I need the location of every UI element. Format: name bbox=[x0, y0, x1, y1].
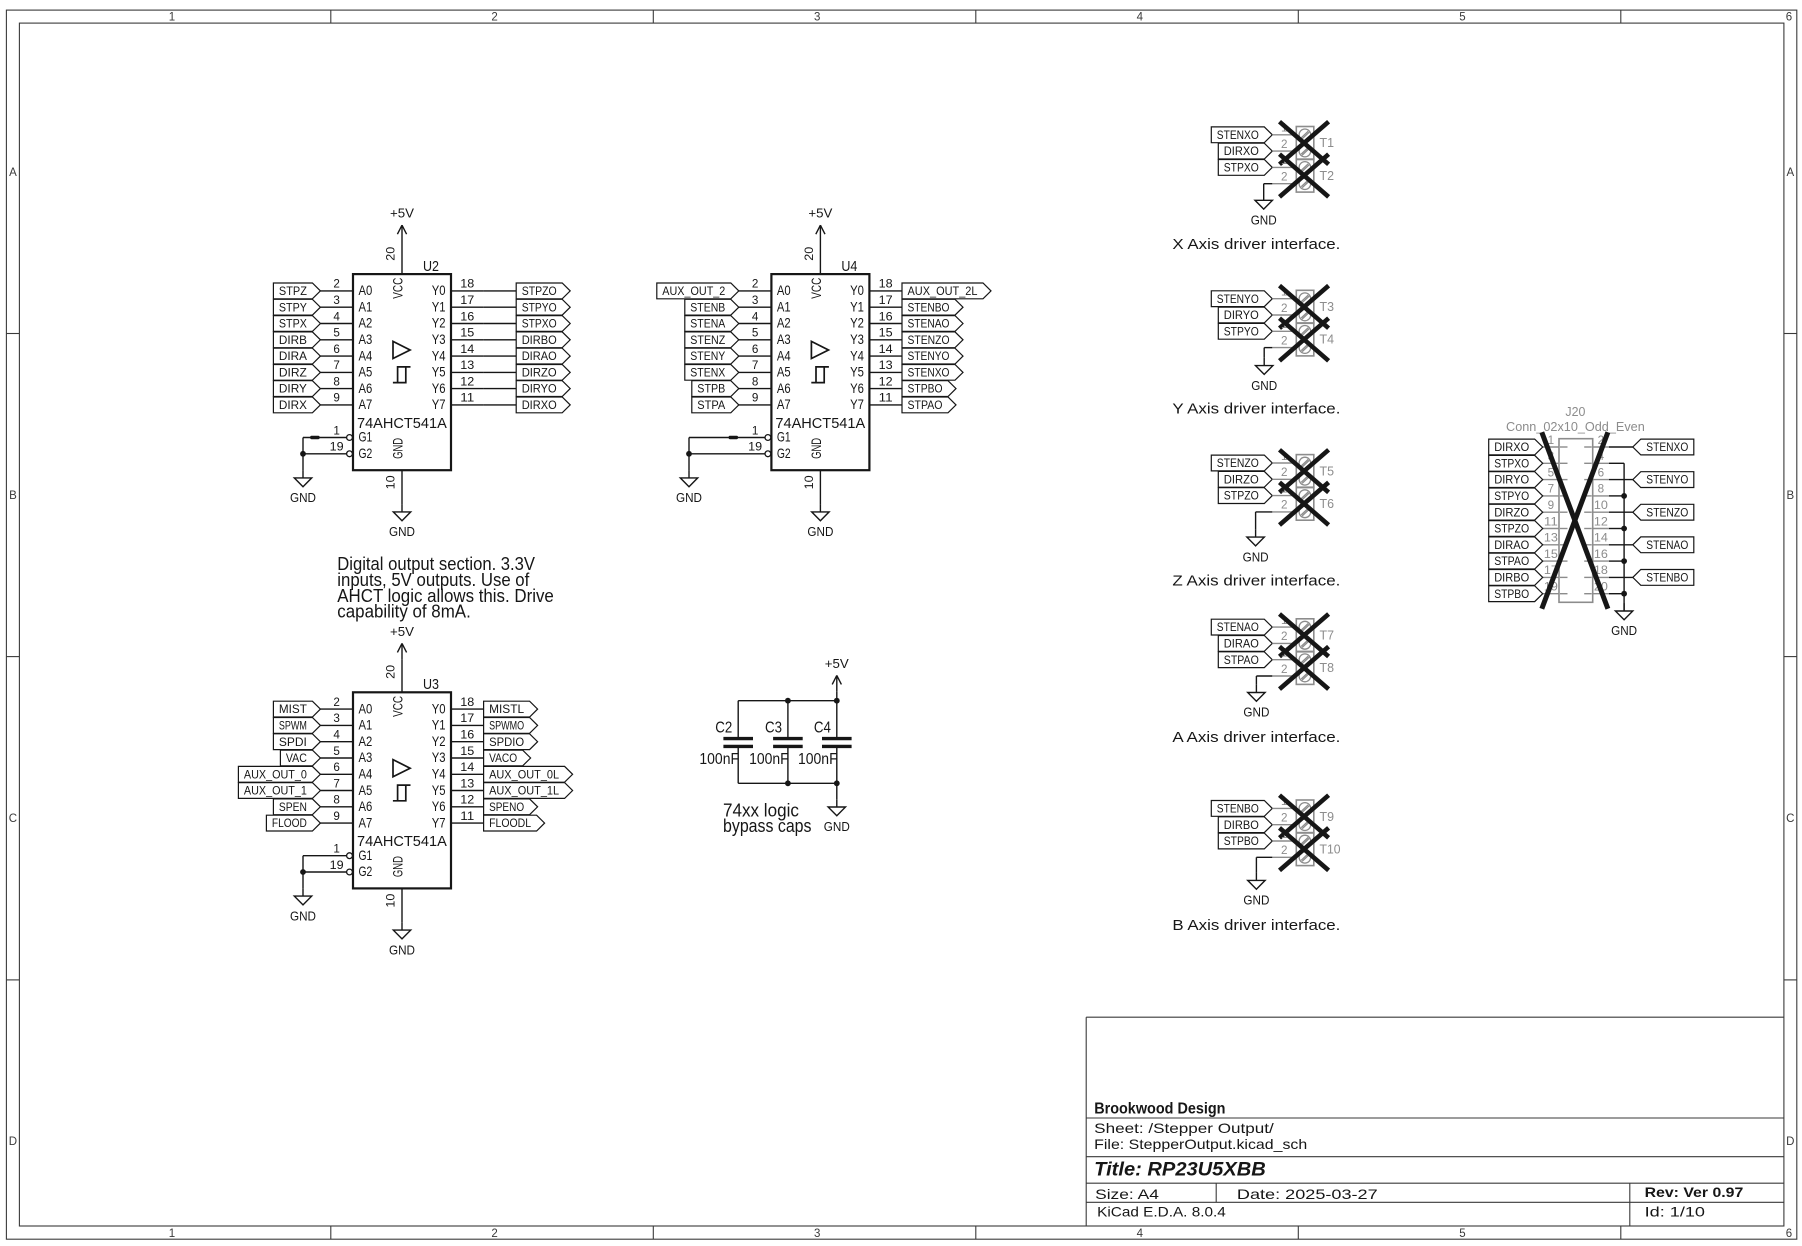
T7 screw bbox=[1299, 638, 1311, 650]
net label DIRAO bbox=[516, 348, 570, 364]
T1 pin 1 bbox=[1272, 134, 1296, 136]
net label VAC bbox=[280, 750, 320, 766]
junction bbox=[834, 780, 840, 786]
T7 pin 1 bbox=[1272, 626, 1296, 628]
net label STENZO bbox=[902, 332, 963, 348]
U3 pin 19 G2 (inverted) bbox=[303, 871, 347, 873]
svg-text:16: 16 bbox=[1594, 549, 1608, 561]
svg-text:A5: A5 bbox=[359, 782, 373, 798]
net label STENB bbox=[685, 299, 739, 315]
svg-text:B Axis driver interface.: B Axis driver interface. bbox=[1172, 917, 1340, 934]
ground bbox=[688, 470, 690, 478]
net label SPWM bbox=[273, 718, 320, 734]
svg-text:STENXO: STENXO bbox=[908, 368, 950, 380]
svg-text:1: 1 bbox=[752, 425, 759, 437]
svg-text:A6: A6 bbox=[777, 380, 791, 396]
T2 screw bbox=[1299, 162, 1311, 174]
svg-text:GND: GND bbox=[390, 856, 406, 877]
svg-text:Size: A4: Size: A4 bbox=[1095, 1186, 1159, 1202]
net label STPBO bbox=[1489, 586, 1543, 602]
junction bbox=[1621, 526, 1627, 532]
T4 pin 2 bbox=[1272, 347, 1296, 349]
border row ticks bbox=[6, 333, 19, 335]
net label STPZO bbox=[1218, 488, 1272, 504]
wire pin2 to ground bbox=[1264, 347, 1272, 349]
svg-text:18: 18 bbox=[879, 279, 893, 291]
svg-text:STENBO: STENBO bbox=[1646, 573, 1688, 585]
svg-text:STENZO: STENZO bbox=[908, 335, 950, 347]
svg-text:AUX_OUT_1: AUX_OUT_1 bbox=[244, 786, 307, 798]
U4 pin 14 Y4 bbox=[869, 355, 902, 357]
junction bbox=[785, 698, 791, 704]
svg-text:5: 5 bbox=[1459, 1228, 1465, 1240]
svg-text:+5V: +5V bbox=[808, 206, 832, 221]
U2 pin 4 A2 bbox=[320, 323, 353, 325]
svg-text:Y7: Y7 bbox=[432, 814, 446, 830]
gnd bus wire bbox=[1623, 463, 1625, 611]
svg-text:A Axis driver interface.: A Axis driver interface. bbox=[1172, 729, 1340, 746]
svg-text:STENB: STENB bbox=[690, 302, 725, 314]
wire G1 to G2 junction bbox=[302, 856, 304, 872]
svg-text:6: 6 bbox=[1786, 1228, 1792, 1240]
net label STPYO bbox=[1489, 488, 1543, 504]
svg-text:STPB: STPB bbox=[697, 384, 725, 396]
svg-text:G2: G2 bbox=[777, 445, 791, 461]
U4 pin 5 A3 bbox=[739, 339, 772, 341]
net label STPY bbox=[273, 299, 320, 315]
net label AUX_OUT_1 bbox=[238, 783, 320, 799]
svg-text:T1: T1 bbox=[1320, 135, 1335, 150]
svg-text:Y2: Y2 bbox=[850, 315, 864, 331]
svg-text:A6: A6 bbox=[359, 380, 373, 396]
ground bbox=[401, 922, 403, 930]
connector J20 Conn_02x10_Odd_Even bbox=[1559, 439, 1593, 603]
svg-text:STENAO: STENAO bbox=[1217, 622, 1259, 634]
svg-text:Y0: Y0 bbox=[432, 282, 446, 298]
net label STENYO bbox=[1211, 291, 1272, 307]
U4 pin 3 A1 bbox=[739, 306, 772, 308]
net label DIRZO bbox=[516, 365, 570, 381]
U4 pin 2 A0 bbox=[739, 290, 772, 292]
T6 pin 2 bbox=[1272, 511, 1296, 513]
svg-text:6: 6 bbox=[752, 344, 759, 356]
svg-text:A: A bbox=[1786, 167, 1794, 179]
U4 pin 19 G2 (inverted) bbox=[689, 453, 765, 455]
U3 pin 3 A1 bbox=[320, 724, 353, 726]
svg-text:DIRA: DIRA bbox=[279, 351, 307, 363]
wire bbox=[484, 388, 517, 390]
svg-text:A7: A7 bbox=[359, 814, 373, 830]
ground bbox=[1263, 193, 1265, 201]
svg-text:2: 2 bbox=[1281, 335, 1288, 347]
svg-text:T10: T10 bbox=[1320, 841, 1341, 856]
svg-text:GND: GND bbox=[1251, 213, 1277, 228]
svg-text:DIRXO: DIRXO bbox=[1224, 146, 1259, 158]
svg-text:STENAO: STENAO bbox=[1646, 540, 1688, 552]
ground bbox=[302, 888, 304, 896]
svg-text:2: 2 bbox=[491, 1228, 497, 1240]
svg-text:Y5: Y5 bbox=[432, 364, 446, 380]
net label STPZ bbox=[273, 283, 320, 299]
svg-text:T2: T2 bbox=[1320, 168, 1335, 183]
svg-text:STPZO: STPZO bbox=[1224, 491, 1259, 503]
T3 pin 1 bbox=[1272, 298, 1296, 300]
net label DIRYO bbox=[1489, 472, 1543, 488]
net label STENZO bbox=[1633, 504, 1694, 520]
T8 screw bbox=[1299, 654, 1311, 666]
svg-text:D: D bbox=[1786, 1136, 1794, 1148]
svg-text:A0: A0 bbox=[359, 700, 373, 716]
net label STENA bbox=[685, 316, 739, 332]
svg-text:15: 15 bbox=[460, 746, 474, 758]
svg-text:10: 10 bbox=[1594, 500, 1608, 512]
svg-text:17: 17 bbox=[460, 713, 474, 725]
power +5V bbox=[401, 643, 403, 659]
U3 pin 10 GND bbox=[401, 888, 403, 922]
svg-text:STPBO: STPBO bbox=[908, 384, 943, 396]
svg-text:T6: T6 bbox=[1320, 496, 1335, 511]
svg-text:GND: GND bbox=[390, 438, 406, 459]
svg-text:Y3: Y3 bbox=[432, 331, 446, 347]
svg-text:A1: A1 bbox=[777, 298, 791, 314]
net label DIRBO bbox=[516, 332, 570, 348]
net label STPX bbox=[273, 316, 320, 332]
svg-text:bypass caps: bypass caps bbox=[723, 816, 812, 836]
svg-text:7: 7 bbox=[1548, 484, 1555, 496]
J20 pin 19 bbox=[1543, 593, 1559, 595]
junction bbox=[834, 698, 840, 704]
svg-text:2: 2 bbox=[333, 279, 340, 291]
net label SPEN bbox=[273, 799, 320, 815]
J20 pin 3 bbox=[1543, 462, 1559, 464]
svg-text:8: 8 bbox=[1598, 484, 1605, 496]
net label DIRZO bbox=[1489, 504, 1543, 520]
screw terminal T7 bbox=[1296, 619, 1314, 652]
T10 pin 2 bbox=[1272, 856, 1296, 858]
T9 pin 2 bbox=[1272, 824, 1296, 826]
svg-text:T8: T8 bbox=[1320, 660, 1335, 675]
T6 screw bbox=[1299, 506, 1311, 518]
U3 pin 2 A0 bbox=[320, 708, 353, 710]
svg-text:AUX_OUT_0: AUX_OUT_0 bbox=[244, 769, 307, 781]
svg-text:+5V: +5V bbox=[390, 206, 414, 221]
svg-text:A4: A4 bbox=[359, 347, 373, 363]
svg-text:SPWMO: SPWMO bbox=[489, 721, 524, 733]
svg-text:3: 3 bbox=[814, 12, 820, 24]
net label STPAO bbox=[1218, 652, 1272, 668]
DNP cross T5 bbox=[1280, 450, 1329, 493]
T1 screw bbox=[1299, 129, 1311, 141]
svg-text:15: 15 bbox=[460, 328, 474, 340]
net label MIST bbox=[273, 701, 320, 717]
svg-text:A: A bbox=[9, 167, 17, 179]
svg-text:AUX_OUT_1L: AUX_OUT_1L bbox=[489, 786, 560, 798]
svg-text:Id: 1/10: Id: 1/10 bbox=[1645, 1203, 1706, 1219]
net label DIRBO bbox=[1489, 570, 1543, 586]
U3 pin 7 A5 bbox=[320, 790, 353, 792]
svg-text:10: 10 bbox=[386, 894, 398, 908]
svg-text:8: 8 bbox=[333, 376, 340, 388]
svg-text:100nF: 100nF bbox=[749, 751, 789, 768]
svg-text:A1: A1 bbox=[359, 298, 373, 314]
net label DIRAO bbox=[1218, 636, 1272, 652]
svg-text:STENX: STENX bbox=[690, 368, 725, 380]
svg-text:STPAO: STPAO bbox=[908, 400, 943, 412]
svg-text:5: 5 bbox=[333, 328, 340, 340]
svg-text:AUX_OUT_2L: AUX_OUT_2L bbox=[908, 286, 979, 298]
svg-text:STPAO: STPAO bbox=[1494, 556, 1529, 568]
DNP cross T4 bbox=[1280, 318, 1329, 361]
svg-text:GND: GND bbox=[808, 438, 824, 459]
J20 pin 6 bbox=[1593, 479, 1609, 481]
svg-text:GND: GND bbox=[807, 524, 833, 539]
U3 pin 13 Y5 bbox=[451, 790, 484, 792]
ground bbox=[401, 504, 403, 512]
net label STPXO bbox=[1489, 455, 1543, 471]
T4 screw bbox=[1299, 326, 1311, 338]
U2 pin 9 A7 bbox=[320, 404, 353, 406]
svg-text:STPXO: STPXO bbox=[1494, 458, 1529, 470]
svg-text:Y1: Y1 bbox=[432, 298, 446, 314]
junction bbox=[1621, 493, 1627, 499]
svg-text:C2: C2 bbox=[715, 720, 732, 737]
U3 pin 15 Y3 bbox=[451, 757, 484, 759]
svg-text:A2: A2 bbox=[359, 733, 373, 749]
wire bbox=[484, 404, 517, 406]
J20 pin 14 bbox=[1593, 544, 1609, 546]
svg-text:Y5: Y5 bbox=[432, 782, 446, 798]
junction bbox=[300, 451, 306, 457]
U4 pin 4 A2 bbox=[739, 323, 772, 325]
svg-text:10: 10 bbox=[804, 475, 816, 489]
svg-text:MIST: MIST bbox=[279, 704, 307, 716]
svg-text:AUX_OUT_2: AUX_OUT_2 bbox=[662, 286, 725, 298]
T10 pin 1 bbox=[1272, 840, 1296, 842]
svg-text:A0: A0 bbox=[777, 282, 791, 298]
U4 pin 15 Y3 bbox=[869, 339, 902, 341]
net label STENAO bbox=[1633, 537, 1694, 553]
IC U4 74AHCT541A buffer bbox=[771, 274, 869, 470]
T10 screw bbox=[1299, 835, 1311, 847]
svg-text:A5: A5 bbox=[777, 364, 791, 380]
svg-text:2: 2 bbox=[1281, 845, 1288, 857]
net label STENXO bbox=[902, 365, 963, 381]
net label VACO bbox=[484, 750, 531, 766]
svg-text:5: 5 bbox=[333, 746, 340, 758]
svg-text:J20: J20 bbox=[1565, 405, 1585, 419]
net label STPBO bbox=[902, 381, 956, 397]
J20 pin 13 bbox=[1543, 544, 1559, 546]
svg-text:17: 17 bbox=[460, 295, 474, 307]
net tie on G1 wire bbox=[310, 436, 319, 439]
U4 pin 1 G1 (inverted) bbox=[689, 437, 765, 439]
wire bbox=[484, 306, 517, 308]
svg-text:DIRB: DIRB bbox=[279, 335, 307, 347]
svg-text:FLOODL: FLOODL bbox=[489, 818, 532, 830]
junction bbox=[300, 869, 306, 875]
svg-text:16: 16 bbox=[879, 311, 893, 323]
U3 pin 8 A6 bbox=[320, 806, 353, 808]
U4 pin 20 VCC bbox=[819, 242, 821, 275]
svg-text:DIRBO: DIRBO bbox=[522, 335, 557, 347]
svg-text:12: 12 bbox=[460, 376, 474, 388]
U3 pin 14 Y4 bbox=[451, 773, 484, 775]
svg-text:11: 11 bbox=[460, 811, 474, 823]
J20 pin 1 bbox=[1543, 446, 1559, 448]
junction bbox=[1621, 558, 1627, 564]
net label AUX_OUT_2L bbox=[902, 283, 991, 299]
svg-text:SPWM: SPWM bbox=[279, 721, 307, 733]
U4 pin 7 A5 bbox=[739, 371, 772, 373]
wire to ground bbox=[302, 872, 304, 888]
svg-text:14: 14 bbox=[460, 762, 475, 774]
svg-text:8: 8 bbox=[752, 376, 759, 388]
net label STPZO bbox=[516, 283, 570, 299]
net label STENBO bbox=[1211, 801, 1272, 817]
svg-text:STPBO: STPBO bbox=[1494, 589, 1529, 601]
screw terminal T10 bbox=[1296, 833, 1314, 866]
svg-text:STPZO: STPZO bbox=[522, 286, 557, 298]
U3 buffer triangle glyph bbox=[393, 760, 410, 777]
U2 pin 1 G1 (inverted) bbox=[303, 437, 347, 439]
svg-text:3: 3 bbox=[333, 295, 340, 307]
net label STENXO bbox=[1633, 439, 1694, 455]
wire bbox=[1609, 479, 1633, 481]
T1 screw bbox=[1299, 145, 1311, 157]
capacitor C2 100nF bbox=[737, 701, 739, 737]
svg-text:12: 12 bbox=[460, 795, 474, 807]
net label DIRY bbox=[273, 381, 320, 397]
T2 screw bbox=[1299, 178, 1311, 190]
U3 pin 5 A3 bbox=[320, 757, 353, 759]
U4 pin 16 Y2 bbox=[869, 323, 902, 325]
svg-text:Y2: Y2 bbox=[432, 733, 446, 749]
U2 pin 15 Y3 bbox=[451, 339, 484, 341]
svg-text:VCC: VCC bbox=[808, 278, 824, 299]
U2 schmitt trigger glyph bbox=[398, 367, 411, 383]
svg-text:Title: RP23U5XBB: Title: RP23U5XBB bbox=[1094, 1160, 1266, 1181]
power +5V bbox=[836, 675, 838, 691]
svg-text:DIRZ: DIRZ bbox=[279, 368, 307, 380]
junction bbox=[686, 451, 692, 457]
screw terminal T8 bbox=[1296, 651, 1314, 684]
svg-text:6: 6 bbox=[1598, 467, 1605, 479]
bypass capacitor rail +5V bbox=[738, 700, 837, 702]
wire bbox=[1609, 446, 1633, 448]
svg-text:G1: G1 bbox=[359, 847, 373, 863]
svg-text:U2: U2 bbox=[423, 258, 439, 275]
screw terminal T3 bbox=[1296, 290, 1314, 323]
DNP cross T1 bbox=[1280, 122, 1329, 165]
wire bbox=[484, 290, 517, 292]
svg-text:11: 11 bbox=[460, 393, 474, 405]
net label STENYO bbox=[1633, 472, 1694, 488]
net label STENZ bbox=[685, 332, 739, 348]
svg-text:STPYO: STPYO bbox=[1224, 326, 1259, 338]
ground bbox=[1263, 358, 1265, 366]
svg-text:17: 17 bbox=[879, 295, 893, 307]
svg-text:A2: A2 bbox=[359, 315, 373, 331]
svg-text:7: 7 bbox=[333, 360, 340, 372]
svg-text:DIRBO: DIRBO bbox=[1224, 820, 1259, 832]
net label SPDI bbox=[273, 734, 320, 750]
svg-text:A4: A4 bbox=[777, 347, 791, 363]
T2 pin 2 bbox=[1272, 183, 1296, 185]
svg-text:9: 9 bbox=[752, 393, 759, 405]
svg-text:7: 7 bbox=[333, 778, 340, 790]
svg-text:12: 12 bbox=[879, 376, 893, 388]
svg-text:15: 15 bbox=[879, 328, 893, 340]
svg-text:FLOOD: FLOOD bbox=[272, 818, 307, 830]
svg-text:Y5: Y5 bbox=[850, 364, 864, 380]
ground bbox=[1255, 529, 1257, 537]
svg-text:STENBO: STENBO bbox=[908, 302, 950, 314]
J20 pin 11 bbox=[1543, 528, 1559, 530]
svg-text:STENAO: STENAO bbox=[908, 319, 950, 331]
svg-text:STENYO: STENYO bbox=[1646, 475, 1688, 487]
svg-text:GND: GND bbox=[389, 942, 415, 957]
net label STENBO bbox=[902, 299, 963, 315]
screw terminal T5 bbox=[1296, 455, 1314, 488]
svg-text:STENA: STENA bbox=[690, 319, 725, 331]
svg-text:SPDI: SPDI bbox=[279, 737, 307, 749]
wire bbox=[484, 371, 517, 373]
svg-text:STPYO: STPYO bbox=[522, 302, 557, 314]
svg-text:2: 2 bbox=[333, 697, 340, 709]
svg-text:2: 2 bbox=[1281, 139, 1288, 151]
svg-text:19: 19 bbox=[330, 442, 344, 454]
svg-text:STPY: STPY bbox=[279, 302, 307, 314]
J20 pin 16 bbox=[1593, 560, 1609, 562]
T8 screw bbox=[1299, 670, 1311, 682]
net tie on G1 wire bbox=[729, 436, 738, 439]
svg-text:A2: A2 bbox=[777, 315, 791, 331]
J20 pin 12 bbox=[1593, 528, 1609, 530]
net label DIRX bbox=[273, 397, 320, 413]
wire bbox=[1609, 544, 1633, 546]
svg-text:100nF: 100nF bbox=[798, 751, 838, 768]
svg-text:6: 6 bbox=[333, 344, 340, 356]
wire to gnd bus bbox=[1609, 495, 1624, 497]
svg-text:18: 18 bbox=[460, 279, 474, 291]
ground bbox=[1255, 873, 1257, 881]
svg-text:GND: GND bbox=[389, 524, 415, 539]
svg-text:13: 13 bbox=[879, 360, 893, 372]
net label STENX bbox=[685, 365, 739, 381]
svg-text:A7: A7 bbox=[777, 396, 791, 412]
svg-text:Y1: Y1 bbox=[850, 298, 864, 314]
DNP cross T9 bbox=[1280, 795, 1329, 838]
svg-text:2: 2 bbox=[1281, 172, 1288, 184]
net label DIRXO bbox=[1218, 143, 1272, 159]
svg-text:15: 15 bbox=[1544, 549, 1558, 561]
U3 pin 11 Y7 bbox=[451, 822, 484, 824]
svg-text:14: 14 bbox=[1594, 533, 1609, 545]
net label STENXO bbox=[1211, 127, 1272, 143]
J20 pin 2 bbox=[1593, 446, 1609, 448]
net label STPAO bbox=[902, 397, 956, 413]
svg-text:Y4: Y4 bbox=[432, 347, 446, 363]
wire to gnd bus bbox=[1609, 593, 1624, 595]
svg-text:20: 20 bbox=[386, 247, 398, 261]
T7 pin 2 bbox=[1272, 642, 1296, 644]
U4 pin 12 Y6 bbox=[869, 388, 902, 390]
svg-text:capability of 8mA.: capability of 8mA. bbox=[337, 602, 471, 622]
svg-text:GND: GND bbox=[676, 490, 702, 505]
svg-text:Y Axis driver interface.: Y Axis driver interface. bbox=[1172, 400, 1340, 417]
svg-text:Sheet: /Stepper Output/: Sheet: /Stepper Output/ bbox=[1094, 1120, 1274, 1136]
U2 pin 7 A5 bbox=[320, 371, 353, 373]
